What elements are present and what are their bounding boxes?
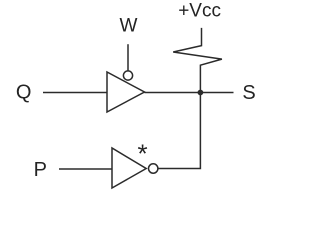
svg-text:W: W bbox=[120, 16, 138, 37]
svg-text:S: S bbox=[242, 82, 255, 104]
svg-text:P: P bbox=[34, 159, 47, 181]
svg-text:Q: Q bbox=[16, 81, 32, 103]
svg-text:+Vcc: +Vcc bbox=[178, 1, 221, 22]
svg-text:*: * bbox=[138, 139, 148, 169]
